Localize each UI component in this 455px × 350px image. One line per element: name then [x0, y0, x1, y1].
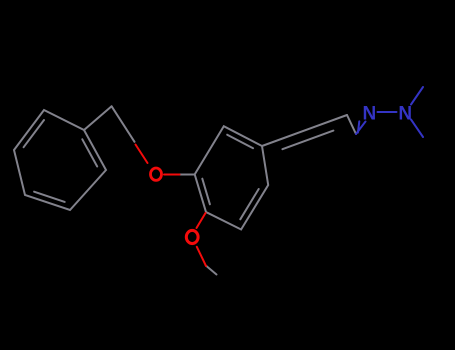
- svg-text:N: N: [398, 104, 412, 125]
- svg-text:N: N: [363, 104, 377, 125]
